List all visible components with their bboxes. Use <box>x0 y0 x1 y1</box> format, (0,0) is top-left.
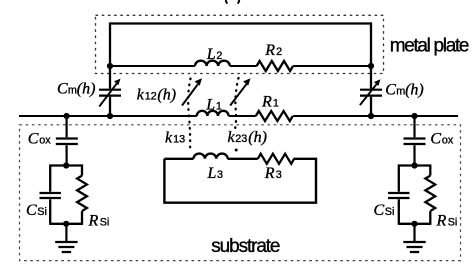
svg-text:23: 23 <box>235 133 247 145</box>
svg-text:1: 1 <box>216 101 222 113</box>
svg-text:(h): (h) <box>405 82 424 99</box>
svg-text:metal plate: metal plate <box>390 36 470 57</box>
svg-text:2: 2 <box>216 50 222 62</box>
svg-text:ox: ox <box>39 135 51 147</box>
svg-text:L: L <box>205 97 215 114</box>
svg-text:12: 12 <box>145 91 157 103</box>
svg-text:m: m <box>68 85 77 97</box>
svg-text:R: R <box>88 213 99 230</box>
svg-text:substrate: substrate <box>211 236 280 257</box>
svg-text:1: 1 <box>273 98 279 110</box>
svg-text:k: k <box>165 130 173 147</box>
svg-text:Si: Si <box>448 217 458 229</box>
svg-text:(h): (h) <box>157 87 176 104</box>
svg-text:k: k <box>137 87 145 104</box>
svg-text:13: 13 <box>173 134 185 146</box>
svg-text:Si: Si <box>100 217 110 229</box>
svg-text:C: C <box>430 131 441 148</box>
svg-text:C: C <box>28 131 39 148</box>
svg-text:C: C <box>57 81 68 98</box>
svg-text:2: 2 <box>276 46 282 58</box>
svg-text:L: L <box>207 165 217 182</box>
svg-text:L: L <box>206 46 216 63</box>
svg-text:R: R <box>264 165 275 182</box>
svg-text:C: C <box>374 202 385 219</box>
svg-text:R: R <box>261 94 272 111</box>
svg-text:3: 3 <box>217 169 223 181</box>
svg-text:(h): (h) <box>248 129 267 146</box>
svg-text:Si: Si <box>385 206 395 218</box>
svg-text:C: C <box>385 82 396 99</box>
svg-text:m: m <box>396 86 405 98</box>
svg-text:ox: ox <box>442 135 454 147</box>
svg-text:R: R <box>436 213 447 230</box>
svg-text:3: 3 <box>276 169 282 181</box>
svg-text:Si: Si <box>37 206 47 218</box>
svg-text:C: C <box>26 202 37 219</box>
svg-text:R: R <box>264 42 275 59</box>
svg-text:(h): (h) <box>77 81 96 98</box>
